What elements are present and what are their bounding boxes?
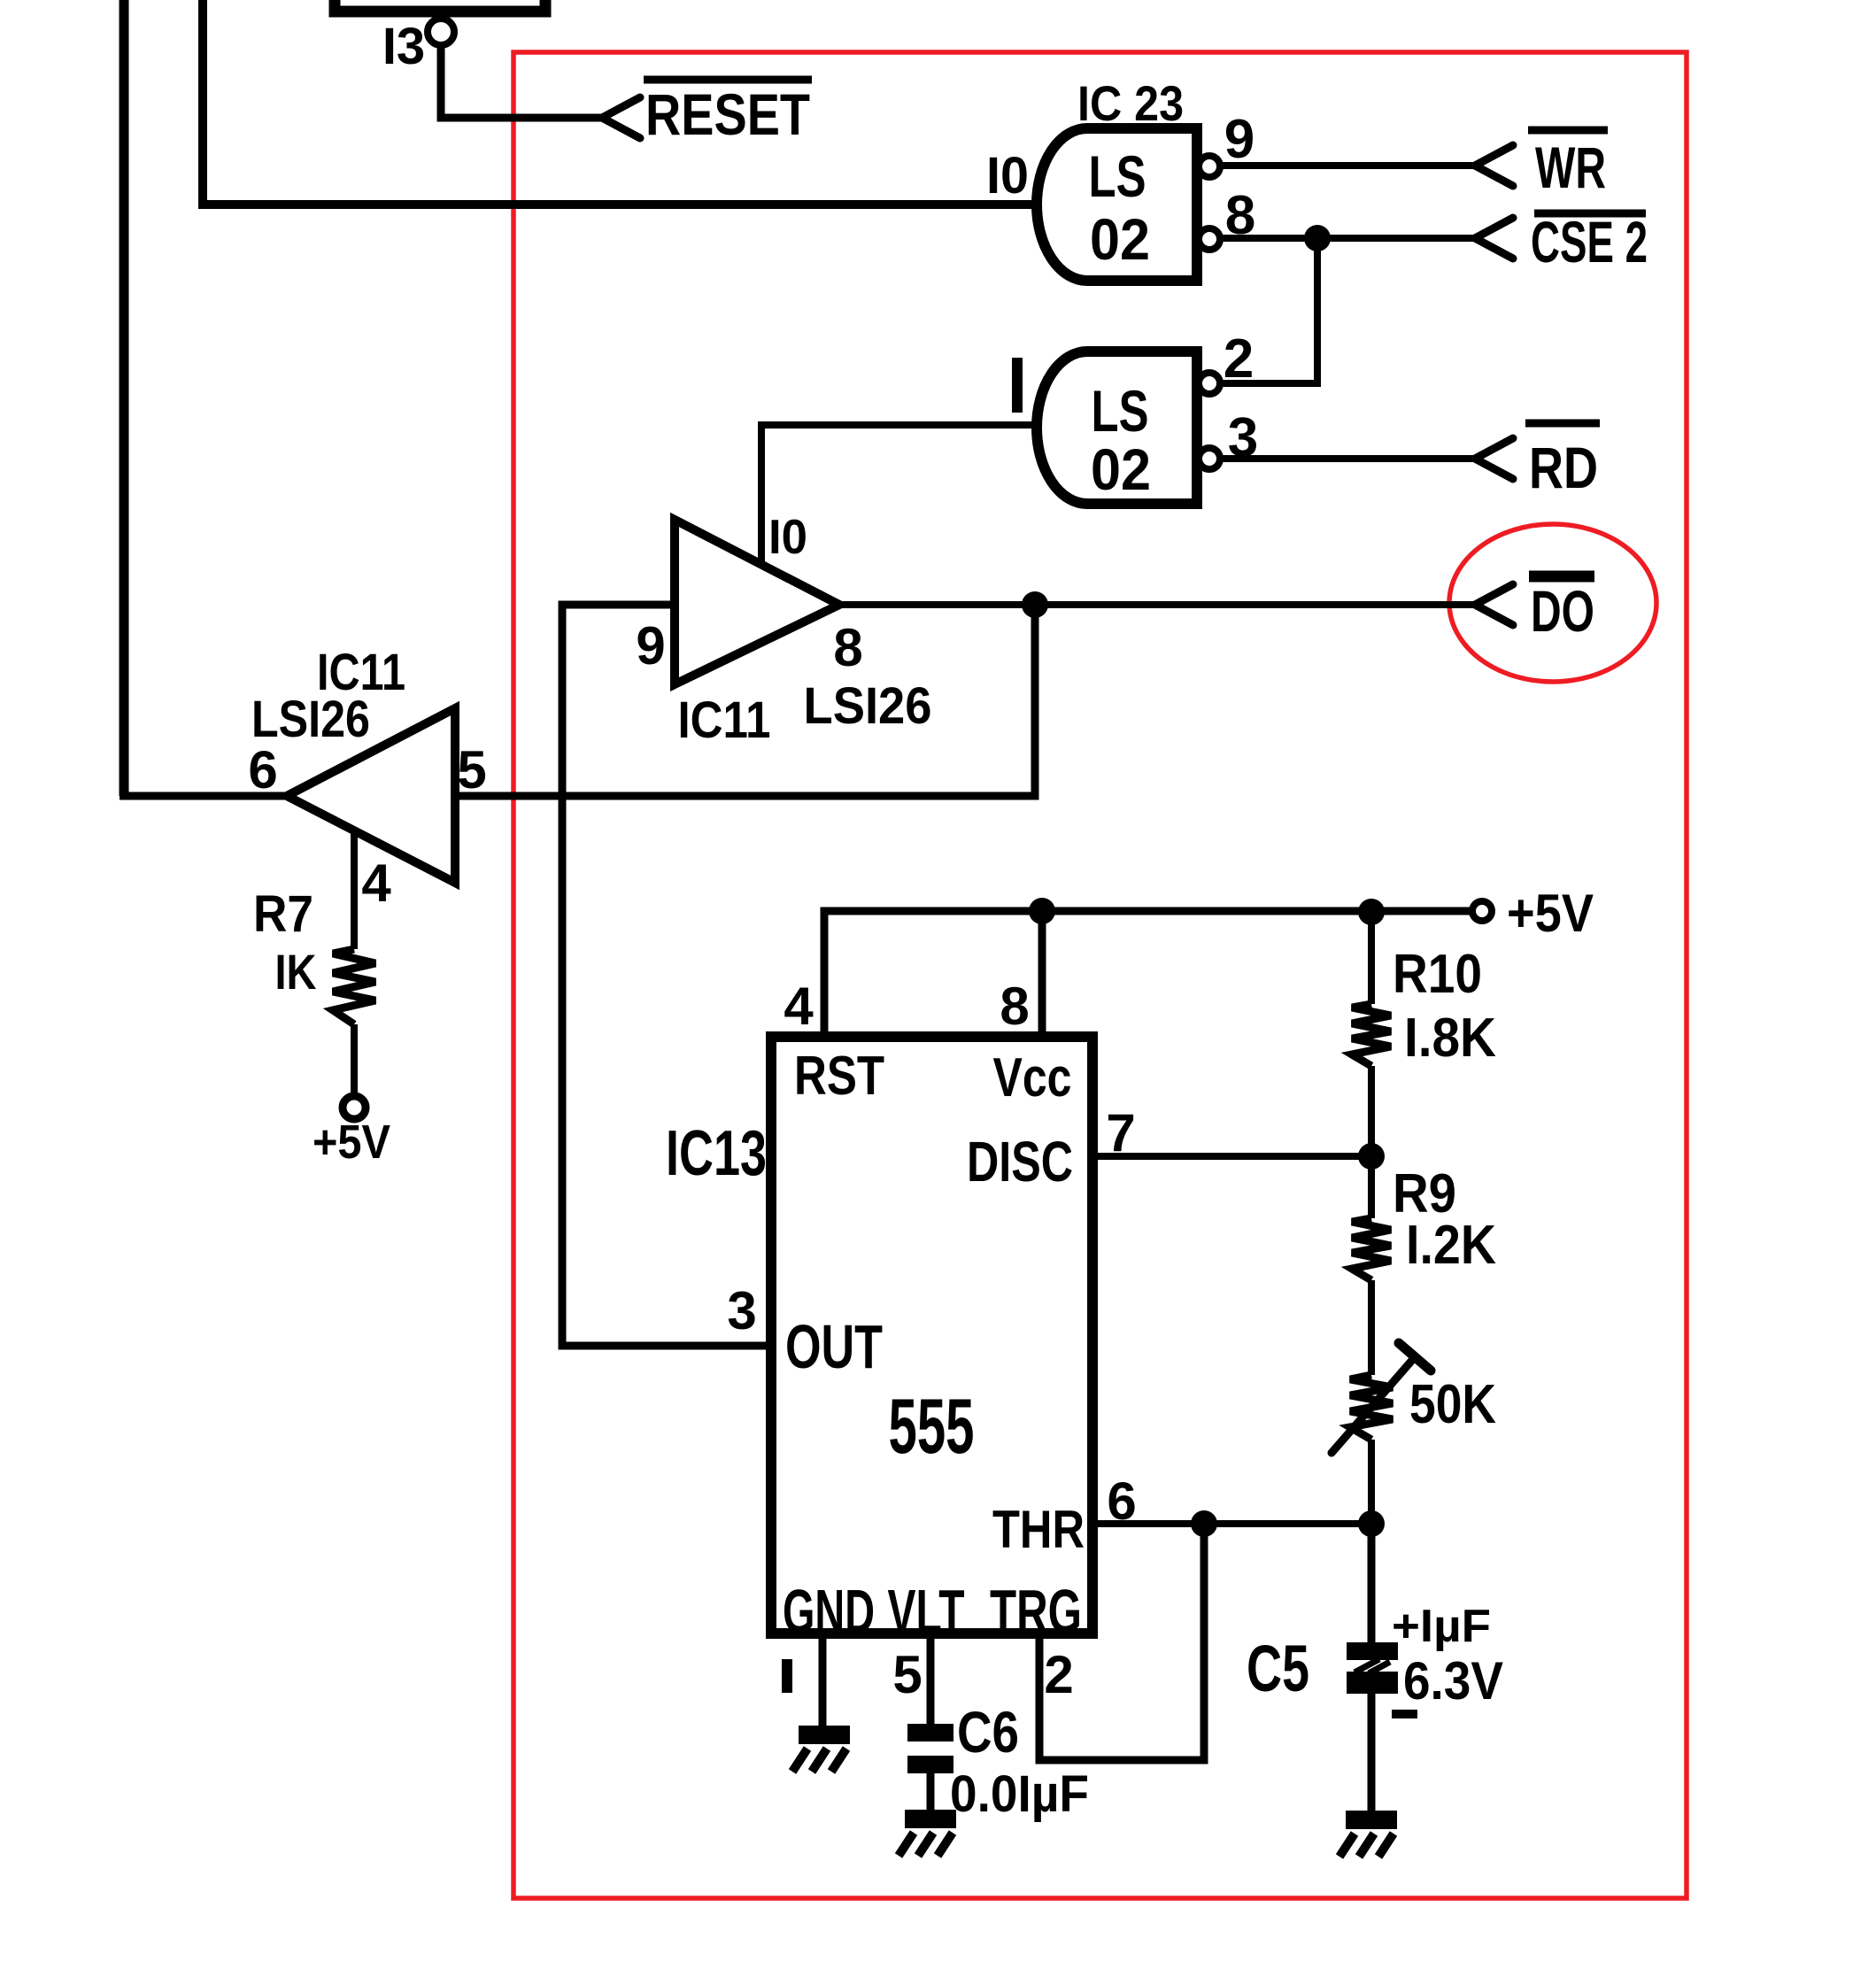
svg-text:50K: 50K: [1409, 1374, 1496, 1435]
svg-text:5: 5: [457, 740, 486, 799]
ground (C5): [1346, 1811, 1397, 1829]
svg-text:I3: I3: [382, 18, 425, 75]
junction R10/R9/DISC: [1358, 1143, 1385, 1170]
junction pin8/Vcc: [1029, 898, 1055, 924]
wire 555 DISC pin7: [1092, 1153, 1371, 1160]
wire 555 pin5 stub to C6: [927, 1633, 935, 1726]
DO arrow: [1475, 584, 1513, 625]
svg-text:8: 8: [833, 618, 862, 677]
wire +5V rail to R10: [1368, 912, 1375, 1004]
svg-text:9: 9: [1224, 109, 1255, 170]
svg-text:6.3V: 6.3V: [1403, 1651, 1503, 1711]
wire vertical bus left: [120, 0, 129, 796]
svg-text:I0: I0: [986, 147, 1029, 205]
svg-text:8: 8: [1000, 977, 1029, 1036]
memory IC box (top, partial): [335, 0, 545, 12]
ground (C6): [905, 1810, 956, 1828]
capacitor C5 (electrolytic): [1347, 1642, 1398, 1660]
svg-text:2: 2: [1224, 328, 1254, 390]
wire 555 pin8 stub: [1038, 911, 1046, 1040]
wire 555 THR pin6: [1092, 1520, 1371, 1527]
junction R10 top: [1358, 899, 1385, 925]
wire pin8 to CSE2: [1220, 235, 1475, 242]
wire NOR gate2 input 1 / buffer enable 10: [761, 425, 1049, 567]
svg-text:R7: R7: [253, 885, 313, 943]
svg-text:555: 555: [889, 1382, 975, 1470]
pin label 1: [1012, 358, 1023, 413]
WR arrow: [1475, 145, 1513, 186]
gate2 output bubble pin 2: [1199, 373, 1220, 394]
svg-text:IC 23: IC 23: [1077, 75, 1184, 131]
wire C5 to ground: [1368, 1694, 1376, 1812]
junction THR/C5 node: [1358, 1510, 1385, 1537]
RD arrow: [1475, 438, 1513, 479]
potentiometer 50K: [1350, 1375, 1393, 1440]
wire C6 to ground: [927, 1773, 935, 1811]
svg-text:6: 6: [1107, 1471, 1136, 1531]
wire buffer output 6 to left bus: [120, 792, 287, 800]
svg-text:+5V: +5V: [1507, 884, 1594, 943]
svg-text:RESET: RESET: [645, 81, 810, 147]
svg-text:C5: C5: [1247, 1632, 1309, 1705]
svg-text:I.2K: I.2K: [1406, 1215, 1496, 1276]
wire R10 to R9 node: [1368, 1066, 1375, 1156]
svg-text:5: 5: [892, 1645, 922, 1704]
wire pin3 to RD: [1220, 455, 1475, 462]
resistor R10: [1352, 1004, 1391, 1066]
svg-text:C6: C6: [957, 1699, 1019, 1765]
wire buffer output 8 to DO: [839, 601, 1475, 608]
svg-text:RD: RD: [1529, 435, 1598, 500]
svg-text:VLT: VLT: [888, 1577, 965, 1646]
svg-text:CSE 2: CSE 2: [1531, 209, 1648, 274]
red highlight rectangle: [513, 52, 1687, 1898]
buffer IC11 upper body: [675, 520, 839, 684]
svg-text:LSI26: LSI26: [804, 677, 932, 735]
svg-text:R10: R10: [1393, 944, 1482, 1005]
+5V terminal (top right): [1472, 901, 1492, 921]
junction CSE2 node: [1304, 225, 1331, 251]
svg-text:DO: DO: [1531, 578, 1594, 644]
svg-text:7: 7: [1106, 1103, 1135, 1162]
junction THR node: [1191, 1510, 1217, 1537]
svg-text:TRG: TRG: [990, 1577, 1082, 1646]
svg-text:8: 8: [1225, 185, 1255, 246]
capacitor C6: [907, 1724, 953, 1741]
svg-text:3: 3: [727, 1281, 756, 1340]
NOR gate IC23b body: [1037, 351, 1197, 504]
svg-text:I0: I0: [768, 509, 807, 564]
wire CSE2 node to gate2 pin2: [1220, 238, 1317, 383]
svg-text:4: 4: [784, 977, 814, 1036]
wire pin13 to RESET: [441, 43, 602, 118]
wire THR to TRG pin2: [1039, 1524, 1204, 1760]
wire 555 pin4/pin8/Vcc rail to +5V: [824, 911, 1472, 1040]
svg-text:LS: LS: [1092, 378, 1149, 444]
svg-text:+IµF: +IµF: [1392, 1601, 1491, 1652]
wire NOR gate1 input 10: [198, 200, 1049, 209]
buffer IC11 lower body: [287, 708, 455, 883]
svg-text:6: 6: [248, 740, 277, 799]
svg-text:2: 2: [1044, 1645, 1073, 1704]
gate1 output bubble pin 8: [1199, 228, 1220, 250]
svg-text:WR: WR: [1535, 135, 1606, 200]
svg-text:+5V: +5V: [313, 1116, 390, 1169]
resistor R9: [1352, 1218, 1391, 1280]
svg-text:3: 3: [1228, 407, 1258, 468]
junction DO node: [1022, 591, 1048, 618]
svg-text:02: 02: [1090, 206, 1150, 272]
wire vertical bus to NOR input 10: [198, 0, 207, 205]
svg-text:RST: RST: [794, 1046, 884, 1107]
svg-text:9: 9: [636, 616, 665, 676]
resistor R7: [333, 949, 375, 1024]
svg-text:IC11: IC11: [678, 691, 771, 749]
svg-text:IK: IK: [275, 944, 317, 1000]
svg-text:I.8K: I.8K: [1404, 1008, 1496, 1069]
pot wiper arrow: [1332, 1358, 1414, 1453]
svg-text:LS: LS: [1089, 143, 1146, 209]
red highlight ellipse around DO: [1449, 524, 1656, 682]
RESET arrow: [602, 97, 640, 138]
svg-text:02: 02: [1091, 436, 1151, 502]
label minus: [1392, 1710, 1417, 1718]
wire buffer input 9 and 555 OUT net: [562, 605, 776, 1346]
wire 555 pin1 GND stub: [819, 1633, 827, 1727]
ground (pin 1): [799, 1726, 850, 1744]
wire DO node to lower buffer input 5: [455, 605, 1035, 796]
gate1 output bubble pin 9: [1199, 156, 1220, 177]
svg-text:IC13: IC13: [666, 1118, 767, 1189]
wire pot to THR node: [1368, 1440, 1375, 1524]
svg-text:Vcc: Vcc: [993, 1047, 1072, 1108]
pin 13 bubble: [428, 19, 454, 45]
wire pin9 to WR: [1220, 162, 1475, 169]
wire R9 top: [1368, 1156, 1375, 1218]
svg-text:GND: GND: [783, 1577, 875, 1646]
pin label 1: [782, 1659, 792, 1693]
svg-text:0.0IµF: 0.0IµF: [950, 1765, 1089, 1823]
wire THR node to C5: [1368, 1524, 1376, 1645]
svg-text:4: 4: [361, 853, 391, 913]
gate2 output bubble pin 3: [1199, 448, 1220, 469]
svg-text:OUT: OUT: [785, 1312, 883, 1381]
wire R7 to +5V: [351, 1024, 358, 1097]
svg-text:THR: THR: [992, 1500, 1085, 1559]
CSE2 arrow: [1475, 218, 1513, 259]
NOR gate IC23a body: [1037, 128, 1197, 281]
wire buffer enable pin 4 to R7: [351, 831, 358, 949]
wire R9 to pot: [1368, 1280, 1375, 1375]
svg-text:DISC: DISC: [967, 1130, 1073, 1193]
555 body IC13: [771, 1037, 1092, 1633]
+5V terminal (R7): [343, 1096, 366, 1119]
